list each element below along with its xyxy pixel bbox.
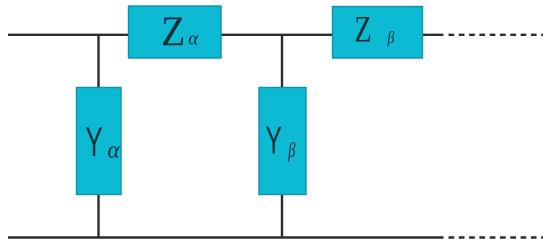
svg-text:Y: Y bbox=[85, 120, 102, 165]
svg-text:α: α bbox=[188, 28, 199, 49]
svg-text:β: β bbox=[387, 29, 395, 48]
svg-text:Z: Z bbox=[354, 10, 371, 50]
svg-text:β: β bbox=[287, 138, 295, 161]
svg-text:α: α bbox=[108, 137, 120, 164]
svg-text:Y: Y bbox=[266, 119, 282, 162]
svg-text:Z: Z bbox=[161, 7, 185, 55]
